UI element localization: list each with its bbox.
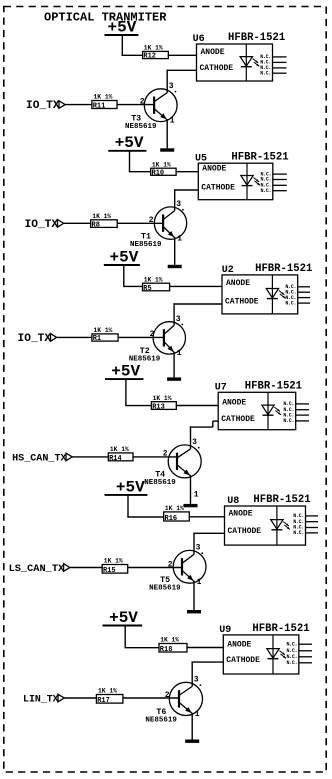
- svg-text:N.C.: N.C.: [293, 530, 304, 536]
- resistor R16 1K 1%: [164, 505, 190, 523]
- svg-text:IO_TX: IO_TX: [25, 219, 59, 231]
- svg-text:ANODE: ANODE: [202, 165, 226, 174]
- svg-text:1K 1%: 1K 1%: [110, 446, 129, 453]
- input port IO_TX: [25, 219, 64, 231]
- pin N.C. 3: [286, 654, 312, 660]
- wire cathode to collector: [192, 661, 224, 686]
- transistor T5 NE85619: [149, 550, 206, 592]
- pin N.C. 1: [283, 401, 309, 407]
- resistor R11 1K 1%: [92, 94, 117, 111]
- ground: [167, 377, 181, 380]
- transistor T2 NE85619: [129, 322, 186, 364]
- optical transmitter U7 HFBR-1521: [215, 381, 302, 430]
- svg-text:HS_CAN_TX: HS_CAN_TX: [12, 454, 67, 465]
- pin N.C. 1: [260, 54, 286, 60]
- wire emitter: [193, 581, 195, 610]
- wire: [117, 104, 154, 106]
- pin N.C. 2: [260, 177, 286, 183]
- pin 3: [192, 438, 200, 449]
- ground: [160, 148, 174, 151]
- svg-text:ANODE: ANODE: [226, 279, 250, 288]
- svg-text:1: 1: [177, 349, 182, 358]
- svg-text:OPTICAL TRANMITER: OPTICAL TRANMITER: [44, 10, 167, 24]
- svg-text:ANODE: ANODE: [229, 510, 253, 519]
- pin N.C. 4: [260, 188, 286, 194]
- svg-text:1K 1%: 1K 1%: [94, 94, 113, 101]
- svg-text:HFBR-1521: HFBR-1521: [252, 623, 309, 635]
- ground: [184, 504, 198, 507]
- input port IO_TX: [26, 100, 65, 112]
- svg-text:1K 1%: 1K 1%: [98, 688, 117, 695]
- svg-text:NE85619: NE85619: [125, 123, 157, 131]
- resistor R5 1K 1%: [143, 276, 170, 293]
- LED (emitter diode): [241, 176, 260, 186]
- ground: [187, 610, 201, 613]
- svg-text:N.C.: N.C.: [260, 188, 271, 194]
- +5V supply (block 1): [105, 18, 139, 55]
- svg-text:IO_TX: IO_TX: [26, 100, 60, 112]
- svg-text:CATHODE: CATHODE: [225, 298, 259, 307]
- wire cathode to collector: [190, 421, 218, 449]
- resistor R12 1K 1%: [143, 45, 169, 61]
- pin N.C. 2: [283, 407, 309, 413]
- svg-text:CATHODE: CATHODE: [226, 656, 260, 665]
- svg-text:R1: R1: [93, 335, 101, 343]
- svg-text:ANODE: ANODE: [201, 48, 225, 57]
- svg-text:1K 1%: 1K 1%: [152, 161, 171, 168]
- wire: [72, 456, 108, 458]
- wire: [127, 516, 163, 518]
- svg-text:R15: R15: [103, 567, 116, 575]
- svg-text:N.C.: N.C.: [260, 70, 271, 76]
- wire: [128, 567, 182, 569]
- pin N.C. 2: [260, 60, 286, 66]
- wire: [176, 171, 198, 173]
- LED (emitter diode): [262, 405, 281, 415]
- svg-text:CATHODE: CATHODE: [228, 527, 262, 536]
- resistor R1 1K 1%: [92, 327, 118, 343]
- wire: [187, 647, 223, 649]
- svg-text:R16: R16: [165, 515, 178, 523]
- optical transmitter U8 HFBR-1521: [225, 494, 311, 545]
- svg-text:3: 3: [194, 676, 199, 685]
- svg-text:+5V: +5V: [110, 248, 139, 266]
- resistor R15 1K 1%: [102, 558, 128, 576]
- svg-text:1K 1%: 1K 1%: [165, 505, 184, 512]
- pin N.C. 4: [260, 70, 286, 76]
- wire: [65, 104, 92, 106]
- svg-text:1: 1: [170, 116, 175, 125]
- svg-text:R5: R5: [143, 285, 151, 293]
- pin N.C. 3: [283, 412, 309, 418]
- resistor R10 1K 1%: [151, 161, 176, 177]
- pin N.C. 3: [260, 183, 286, 189]
- svg-text:R10: R10: [152, 169, 165, 177]
- svg-text:1K 1%: 1K 1%: [144, 45, 163, 52]
- svg-text:1: 1: [194, 490, 199, 499]
- pin N.C. 1: [293, 513, 318, 519]
- svg-text:HFBR-1521: HFBR-1521: [255, 263, 312, 275]
- +5V supply (block 3): [104, 248, 140, 286]
- input port LS_CAN_TX: [9, 563, 70, 575]
- wire: [64, 697, 96, 699]
- wire emitter: [174, 237, 176, 265]
- input port LIN_TX: [23, 694, 64, 705]
- svg-text:R18: R18: [160, 646, 173, 654]
- pin 3: [176, 200, 184, 211]
- pin N.C. 2: [285, 289, 310, 295]
- svg-text:NE85619: NE85619: [149, 585, 181, 593]
- svg-text:R12: R12: [143, 53, 156, 61]
- pin N.C. 4: [285, 300, 310, 306]
- svg-text:+5V: +5V: [111, 363, 140, 381]
- LED (emitter diode): [267, 649, 286, 659]
- svg-text:3: 3: [176, 315, 181, 324]
- svg-text:3: 3: [192, 438, 197, 447]
- pin 3: [176, 315, 184, 326]
- wire: [64, 222, 91, 224]
- resistor R8 1K 1%: [91, 213, 118, 230]
- wire: [125, 405, 151, 407]
- wire: [125, 647, 160, 649]
- svg-text:1K 1%: 1K 1%: [153, 395, 172, 402]
- pin N.C. 1: [260, 171, 286, 177]
- svg-text:1K 1%: 1K 1%: [92, 213, 111, 220]
- LED (emitter diode): [240, 57, 259, 67]
- wire: [70, 567, 103, 569]
- wire: [170, 285, 222, 287]
- transistor T4 NE85619: [144, 445, 201, 487]
- svg-text:N.C.: N.C.: [286, 660, 297, 666]
- optical transmitter U5 HFBR-1521: [195, 151, 289, 199]
- svg-text:CATHODE: CATHODE: [200, 64, 234, 73]
- svg-text:1: 1: [195, 710, 200, 719]
- svg-text:+5V: +5V: [116, 478, 145, 496]
- wire emitter: [190, 475, 192, 504]
- svg-text:ANODE: ANODE: [227, 640, 251, 649]
- svg-text:ANODE: ANODE: [222, 398, 246, 407]
- svg-text:R13: R13: [152, 404, 165, 412]
- resistor R13 1K 1%: [151, 395, 176, 412]
- pin N.C. 4: [286, 660, 312, 666]
- svg-text:1K 1%: 1K 1%: [104, 558, 123, 565]
- resistor R17 1K 1%: [96, 688, 123, 706]
- pin N.C. 3: [285, 295, 310, 301]
- wire cathode to collector: [167, 70, 197, 93]
- pin N.C. 2: [293, 519, 318, 525]
- wire cathode to collector: [174, 189, 198, 210]
- svg-text:CATHODE: CATHODE: [221, 415, 255, 424]
- wire emitter: [166, 119, 168, 148]
- +5V supply (block 5): [105, 478, 148, 517]
- wire: [133, 456, 177, 458]
- svg-text:R14: R14: [109, 455, 122, 463]
- resistor R18 1K 1%: [159, 637, 187, 654]
- svg-text:1K 1%: 1K 1%: [160, 637, 179, 644]
- transistor T1 NE85619: [130, 207, 187, 249]
- ground: [185, 740, 199, 743]
- input port HS_CAN_TX: [12, 453, 72, 464]
- wire: [129, 171, 151, 173]
- pin 3: [196, 544, 204, 555]
- svg-text:CATHODE: CATHODE: [201, 184, 235, 193]
- optical transmitter U9 HFBR-1521: [219, 623, 309, 674]
- transistor T6 NE85619: [145, 682, 202, 724]
- wire: [189, 516, 224, 518]
- +5V supply (block 4): [105, 363, 143, 406]
- wire: [176, 405, 218, 407]
- svg-text:R8: R8: [92, 222, 100, 230]
- svg-text:1: 1: [177, 234, 182, 243]
- pin N.C. 3: [260, 65, 286, 71]
- svg-text:N.C.: N.C.: [286, 641, 297, 647]
- ground: [168, 265, 182, 268]
- svg-text:+5V: +5V: [109, 609, 138, 627]
- pin N.C. 3: [293, 525, 318, 531]
- optical transmitter U2 HFBR-1521: [222, 263, 313, 314]
- optical transmitter U6 HFBR-1521: [193, 32, 286, 81]
- wire: [117, 222, 163, 224]
- svg-text:HFBR-1521: HFBR-1521: [253, 494, 310, 506]
- pin 3: [169, 82, 177, 93]
- pin N.C. 1: [286, 641, 312, 647]
- wire: [168, 54, 196, 56]
- wire: [123, 285, 142, 287]
- svg-text:HFBR-1521: HFBR-1521: [231, 151, 288, 163]
- svg-text:HFBR-1521: HFBR-1521: [245, 381, 302, 393]
- wire: [118, 336, 164, 338]
- wire emitter: [173, 352, 175, 378]
- pin N.C. 4: [283, 418, 309, 424]
- svg-text:IO_TX: IO_TX: [18, 333, 52, 345]
- wire: [123, 697, 179, 699]
- svg-text:LIN_TX: LIN_TX: [23, 694, 59, 705]
- wire: [57, 336, 92, 338]
- pin N.C. 2: [286, 648, 312, 654]
- pin 3: [194, 676, 202, 686]
- svg-text:+5V: +5V: [115, 134, 144, 152]
- resistor R14 1K 1%: [108, 446, 133, 463]
- svg-text:NE85619: NE85619: [145, 717, 177, 725]
- svg-text:1: 1: [197, 578, 202, 587]
- wire cathode to collector: [173, 303, 222, 325]
- svg-text:R11: R11: [93, 103, 106, 111]
- svg-text:HFBR-1521: HFBR-1521: [228, 32, 285, 44]
- LED (emitter diode): [271, 520, 290, 530]
- +5V supply (block 2): [108, 134, 146, 172]
- svg-text:1K 1%: 1K 1%: [144, 276, 163, 283]
- transistor T3 NE85619: [125, 89, 177, 131]
- pin N.C. 4: [293, 530, 318, 536]
- +5V supply (block 6): [103, 609, 143, 648]
- wire emitter: [191, 713, 193, 740]
- svg-text:N.C.: N.C.: [285, 300, 296, 306]
- svg-text:N.C.: N.C.: [283, 418, 294, 424]
- svg-text:NE85619: NE85619: [144, 479, 176, 487]
- svg-text:+5V: +5V: [108, 18, 137, 36]
- svg-text:1K 1%: 1K 1%: [94, 327, 113, 334]
- wire: [122, 54, 143, 56]
- input port IO_TX: [18, 333, 57, 345]
- LED (emitter diode): [266, 289, 285, 299]
- svg-text:3: 3: [169, 82, 174, 91]
- svg-text:R17: R17: [97, 697, 110, 705]
- wire cathode to collector: [193, 533, 224, 555]
- pin N.C. 1: [285, 284, 310, 290]
- svg-text:LS_CAN_TX: LS_CAN_TX: [9, 563, 65, 575]
